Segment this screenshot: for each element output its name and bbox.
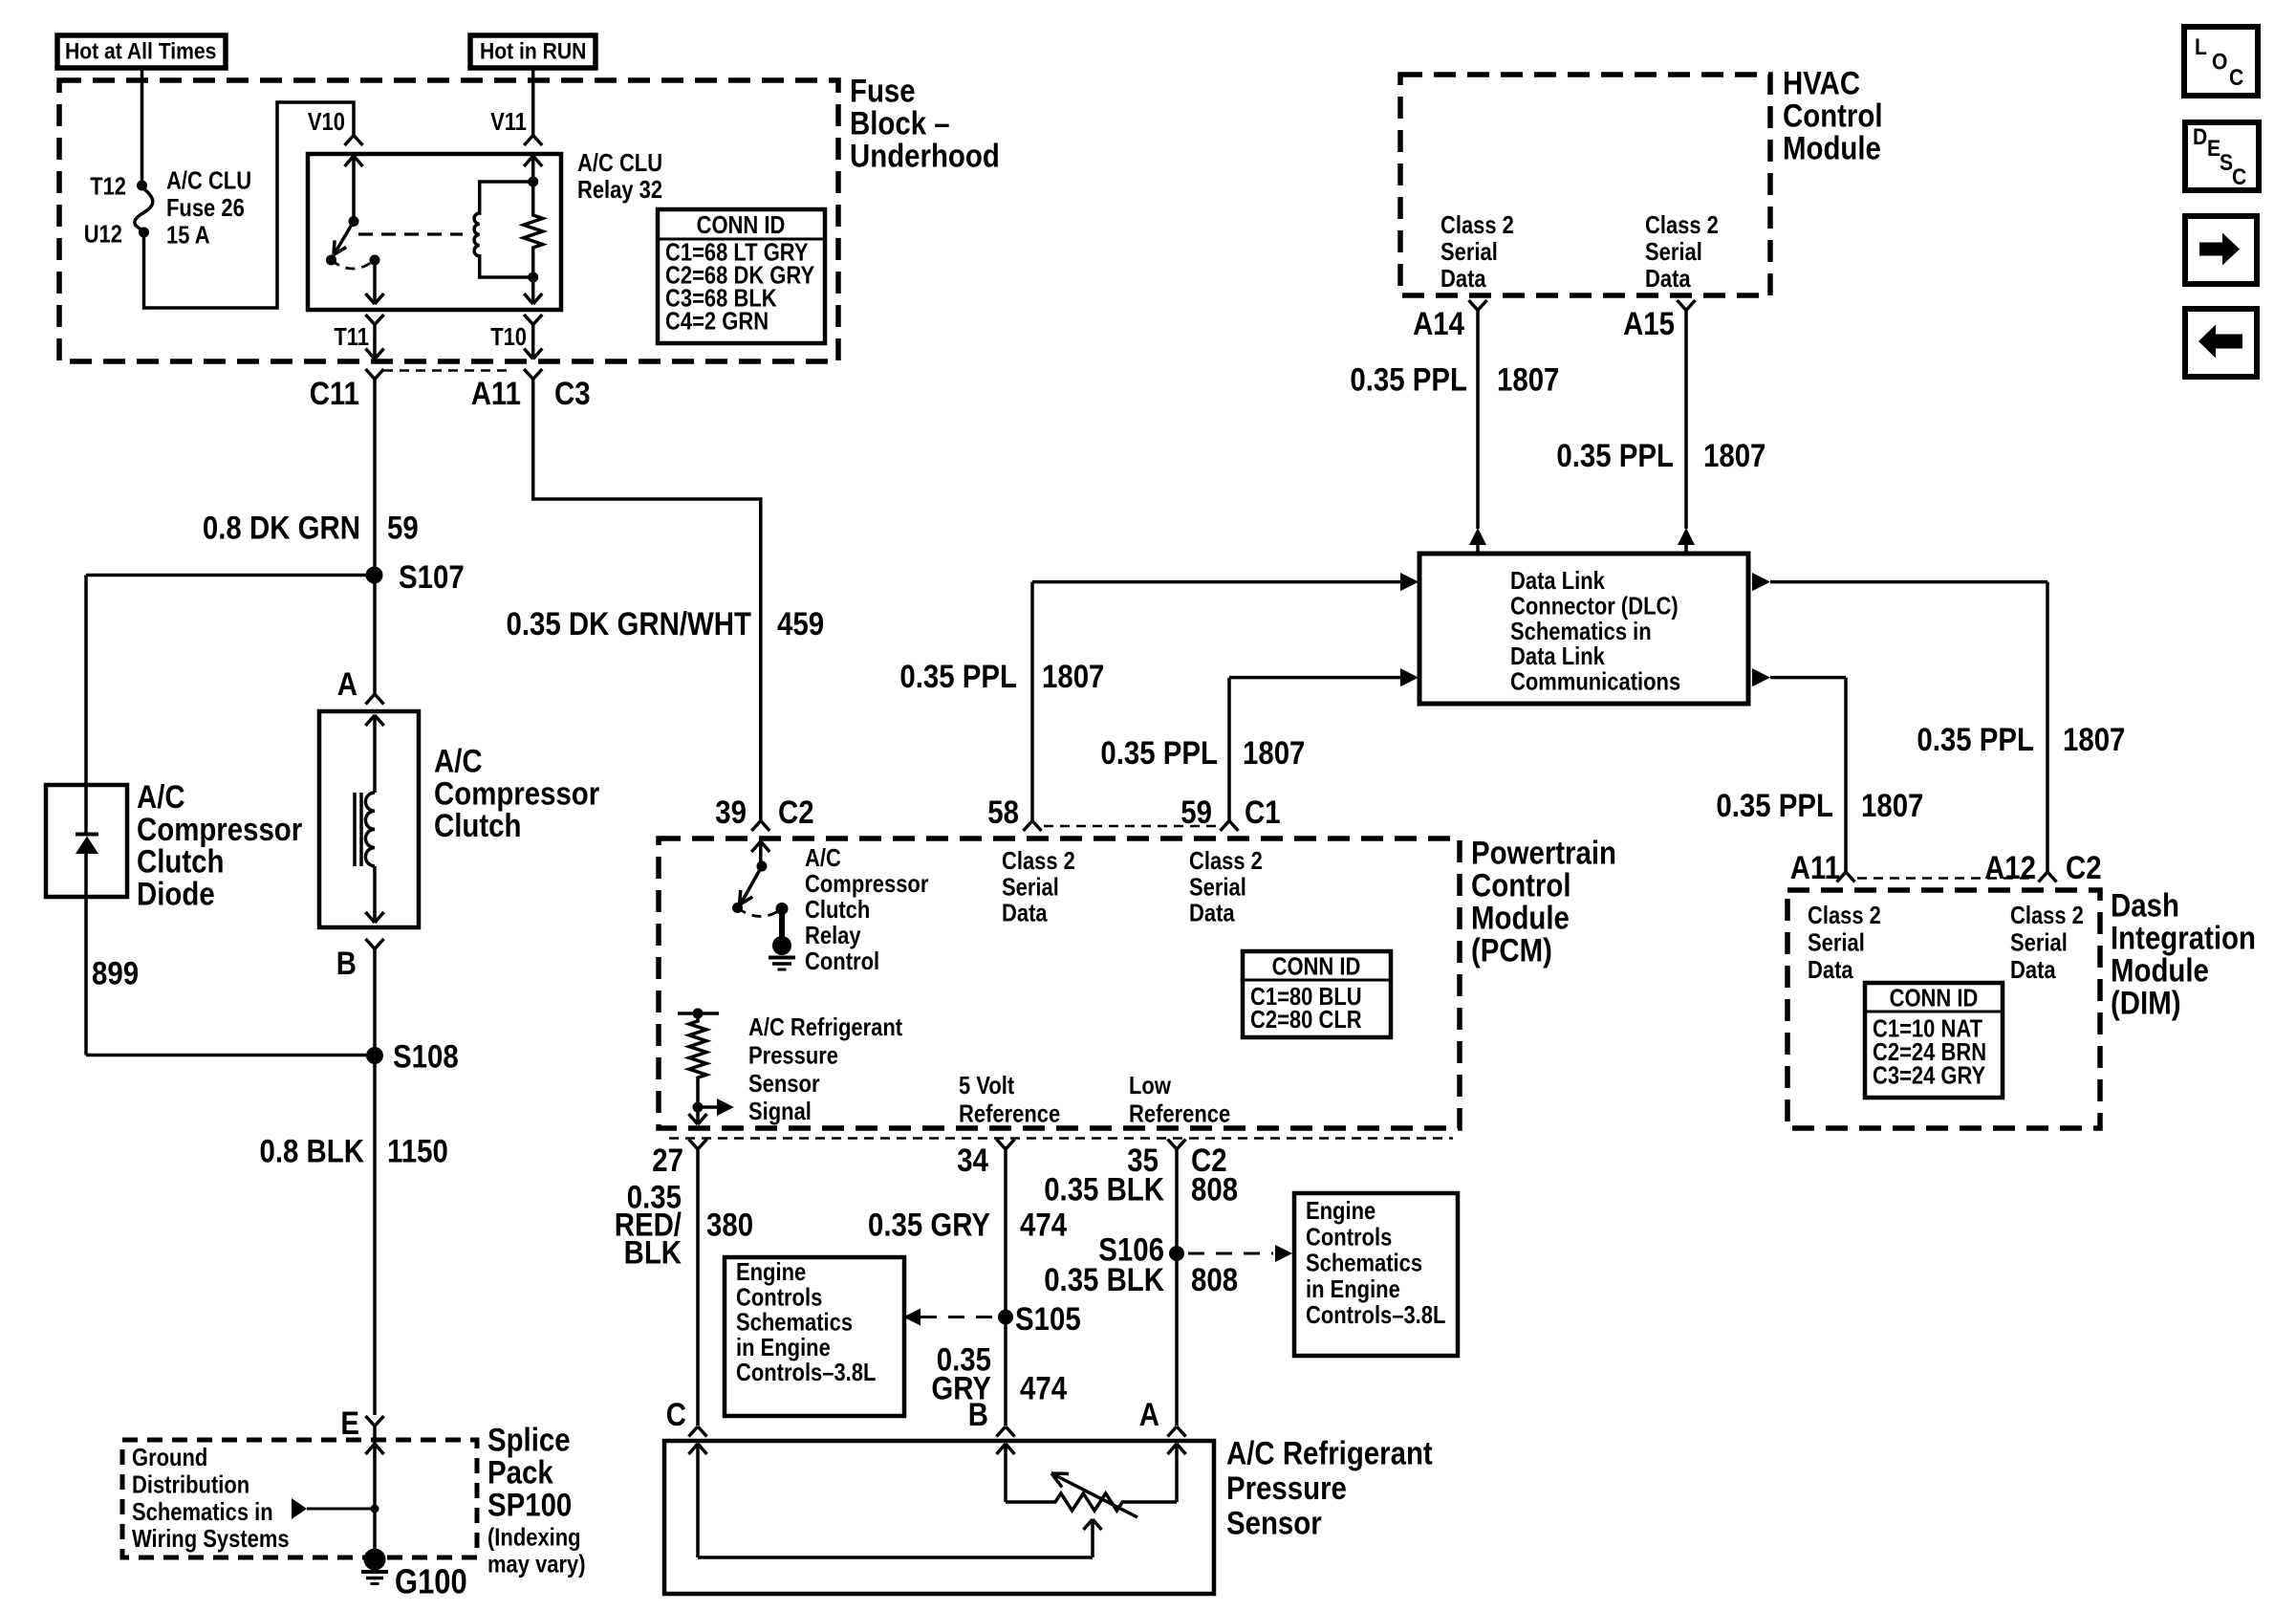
- svg-text:0.35 GRY: 0.35 GRY: [868, 1208, 990, 1244]
- wire Hot at All Times to fuse T12: [141, 68, 144, 185]
- relay switch arm: [335, 222, 355, 255]
- splice S108: [366, 1047, 383, 1064]
- svg-text:A: A: [337, 666, 357, 703]
- sensor B feed: [1004, 1444, 1007, 1502]
- svg-text:Data: Data: [2010, 955, 2056, 984]
- PCM pressure sensor signal pull-up resistor: [678, 1012, 719, 1015]
- svg-text:C3: C3: [554, 376, 591, 412]
- svg-text:Module: Module: [1783, 131, 1881, 167]
- svg-text:S108: S108: [393, 1039, 459, 1076]
- data link connector DLC box: [1419, 554, 1748, 704]
- svg-text:Reference: Reference: [959, 1099, 1060, 1127]
- in-line connector A11 C3: [524, 369, 533, 380]
- svg-text:1807: 1807: [1497, 362, 1559, 399]
- terminal A15: [1678, 300, 1687, 311]
- svg-text:Pressure: Pressure: [1226, 1470, 1347, 1507]
- svg-text:Ground: Ground: [132, 1443, 207, 1471]
- clutch coil out arrow: [373, 866, 377, 922]
- wire DLC to A12: [1770, 580, 2047, 584]
- terminal 34: [997, 1140, 1007, 1150]
- wire S108 to E 0.8 BLK 1150: [373, 1056, 377, 1415]
- svg-text:1807: 1807: [2063, 722, 2125, 758]
- svg-text:(PCM): (PCM): [1471, 933, 1552, 969]
- sensor potentiometer wiper arrow: [1051, 1473, 1137, 1517]
- svg-text:Class 2: Class 2: [1645, 210, 1719, 239]
- svg-text:CONN ID: CONN ID: [1272, 952, 1361, 981]
- svg-text:C11: C11: [310, 376, 359, 412]
- svg-text:C: C: [2229, 65, 2243, 91]
- svg-text:Relay: Relay: [805, 921, 861, 949]
- svg-text:Integration: Integration: [2111, 921, 2256, 957]
- terminal A clutch: [366, 694, 376, 705]
- wire C3 to PCM 39 0.35 DK GRN/WHT 459: [533, 380, 761, 821]
- svg-text:Control: Control: [1783, 98, 1883, 135]
- relay switch pivot node: [349, 216, 359, 227]
- terminal C sensor: [689, 1426, 699, 1437]
- svg-text:Sensor: Sensor: [748, 1069, 820, 1098]
- relay coil L1: [474, 182, 533, 277]
- svg-text:0.35 PPL: 0.35 PPL: [899, 659, 1017, 695]
- svg-text:Data: Data: [1808, 955, 1853, 984]
- svg-text:Compressor: Compressor: [805, 869, 928, 898]
- svg-text:Pressure: Pressure: [748, 1040, 838, 1069]
- sensor potentiometer R: [1006, 1493, 1177, 1511]
- svg-text:C: C: [2232, 164, 2246, 190]
- svg-text:0.35 PPL: 0.35 PPL: [1716, 788, 1833, 824]
- icon arrow left: [2185, 309, 2257, 377]
- svg-text:Wiring Systems: Wiring Systems: [132, 1524, 290, 1553]
- S105 dashed reference arrow: [921, 1316, 994, 1318]
- svg-text:1807: 1807: [1042, 659, 1104, 695]
- svg-text:Data: Data: [1002, 899, 1048, 927]
- wire 27 to C 0.35 RED/BLK 380: [696, 1149, 700, 1426]
- svg-text:459: 459: [777, 606, 824, 642]
- terminal A11 DIM: [1837, 872, 1847, 882]
- DLC top arrow A15: [1678, 528, 1695, 545]
- node U12: [139, 228, 149, 238]
- svg-text:Splice: Splice: [487, 1423, 571, 1459]
- svg-text:380: 380: [706, 1208, 753, 1244]
- sensor bottom path to wiper: [698, 1556, 1093, 1559]
- svg-text:39: 39: [715, 795, 747, 831]
- diode box A/C compressor clutch diode: [46, 785, 127, 897]
- svg-text:Relay 32: Relay 32: [577, 175, 662, 204]
- svg-text:899: 899: [92, 956, 139, 992]
- svg-text:808: 808: [1191, 1262, 1238, 1298]
- terminal A12 C2 DIM: [2039, 872, 2048, 882]
- terminal T11: [366, 315, 376, 325]
- svg-text:HVAC: HVAC: [1783, 66, 1860, 102]
- clutch box A/C compressor clutch: [319, 711, 419, 927]
- power label Hot in RUN: [470, 35, 596, 68]
- conn id table fuse block: [658, 209, 825, 343]
- svg-text:U12: U12: [84, 220, 122, 249]
- svg-text:Module: Module: [2111, 953, 2209, 990]
- PCM relay control ground node: [772, 936, 791, 955]
- svg-text:Schematics: Schematics: [1306, 1249, 1422, 1277]
- svg-text:Control: Control: [805, 947, 879, 975]
- svg-text:A/C: A/C: [434, 744, 483, 780]
- pressure sensor box: [664, 1441, 1214, 1594]
- svg-text:Engine: Engine: [1306, 1196, 1375, 1225]
- clutch coil L: [365, 793, 375, 866]
- svg-text:1150: 1150: [387, 1134, 448, 1170]
- wire DLC to 58: [1032, 580, 1400, 584]
- wire A15 to DLC 0.35 PPL 1807: [1684, 311, 1688, 530]
- wire A14 to DLC 0.35 PPL 1807: [1476, 311, 1480, 530]
- wire 35 to A 0.35 BLK 808: [1175, 1149, 1179, 1426]
- relay coil dashed actuation link: [358, 232, 463, 235]
- terminal V11: [524, 136, 533, 146]
- svg-text:A11: A11: [471, 376, 521, 412]
- DLC left arrow upper: [1400, 573, 1419, 591]
- svg-text:T11: T11: [334, 322, 369, 351]
- svg-text:T12: T12: [90, 172, 126, 201]
- svg-text:Serial: Serial: [1808, 927, 1865, 956]
- icon LOC: [2184, 27, 2258, 96]
- svg-text:E: E: [2207, 136, 2220, 162]
- svg-text:Clutch: Clutch: [434, 808, 522, 844]
- relay output wire to T11: [373, 260, 377, 303]
- sensor C feed: [696, 1444, 700, 1557]
- fuse block - underhood dashed box: [59, 80, 838, 361]
- svg-text:27: 27: [652, 1143, 683, 1179]
- svg-text:V10: V10: [308, 107, 345, 136]
- engine controls box right: [1294, 1193, 1458, 1356]
- svg-text:Underhood: Underhood: [850, 139, 1000, 175]
- svg-text:Class 2: Class 2: [1002, 846, 1075, 875]
- svg-text:Communications: Communications: [1510, 667, 1680, 696]
- svg-text:Serial: Serial: [2010, 927, 2068, 956]
- svg-text:(DIM): (DIM): [2111, 986, 2181, 1022]
- svg-text:in Engine: in Engine: [1306, 1274, 1400, 1303]
- svg-text:0.35 DK GRN/WHT: 0.35 DK GRN/WHT: [507, 606, 752, 642]
- svg-text:Signal: Signal: [748, 1097, 812, 1125]
- connector dashed line 58 59: [1044, 825, 1218, 828]
- svg-text:A/C Refrigerant: A/C Refrigerant: [1226, 1436, 1433, 1472]
- svg-text:59: 59: [387, 511, 419, 547]
- svg-text:Hot at All Times: Hot at All Times: [65, 39, 216, 65]
- svg-text:474: 474: [1020, 1371, 1067, 1407]
- S106 dashed reference arrow: [1188, 1252, 1273, 1255]
- svg-text:C: C: [666, 1397, 686, 1433]
- svg-text:474: 474: [1020, 1208, 1067, 1244]
- svg-text:Hot in RUN: Hot in RUN: [480, 39, 586, 65]
- svg-text:Reference: Reference: [1129, 1099, 1230, 1127]
- svg-text:SP100: SP100: [487, 1488, 572, 1524]
- svg-text:0.8 BLK: 0.8 BLK: [260, 1134, 365, 1170]
- svg-text:0.35 PPL: 0.35 PPL: [1556, 438, 1674, 474]
- DLC right arrow upper: [1752, 573, 1770, 591]
- svg-text:808: 808: [1191, 1172, 1238, 1208]
- node T12: [137, 181, 147, 191]
- PCM signal junction with arrow: [696, 1089, 700, 1107]
- terminal 27: [689, 1140, 699, 1150]
- sensor A feed: [1175, 1444, 1179, 1502]
- svg-text:A: A: [1139, 1397, 1159, 1433]
- terminal A sensor: [1168, 1426, 1178, 1437]
- svg-text:Controls: Controls: [1306, 1222, 1392, 1251]
- svg-text:Serial: Serial: [1002, 872, 1059, 901]
- terminal T10: [524, 315, 533, 325]
- svg-text:Serial: Serial: [1645, 237, 1702, 266]
- svg-text:Control: Control: [1471, 868, 1571, 904]
- ground distribution reference arrow: [292, 1498, 307, 1519]
- splice junction node: [371, 1505, 379, 1513]
- svg-text:0.35 PPL: 0.35 PPL: [1917, 722, 2034, 758]
- svg-text:Class 2: Class 2: [2010, 901, 2084, 929]
- wire T10 to fuse block edge: [531, 325, 535, 359]
- DLC left arrow lower: [1400, 668, 1419, 686]
- svg-text:B: B: [968, 1397, 988, 1433]
- wire down to diode 899: [84, 576, 88, 786]
- wire T11 to fuse block edge: [373, 325, 377, 359]
- svg-text:Module: Module: [1471, 901, 1570, 937]
- svg-text:S105: S105: [1015, 1301, 1081, 1338]
- relay 32 A/C CLU box: [308, 154, 561, 310]
- svg-text:CONN ID: CONN ID: [697, 210, 786, 239]
- svg-text:Serial: Serial: [1189, 872, 1246, 901]
- splice S105: [998, 1310, 1013, 1325]
- wire DLC to A11: [1770, 676, 1846, 680]
- terminal 58: [1024, 821, 1033, 832]
- icon arrow right: [2185, 216, 2257, 284]
- svg-text:Block –: Block –: [850, 106, 950, 142]
- terminal A14: [1469, 300, 1479, 311]
- svg-text:Fuse 26: Fuse 26: [166, 193, 245, 222]
- svg-text:Compressor: Compressor: [137, 812, 302, 848]
- svg-text:B: B: [336, 946, 357, 982]
- svg-text:Distribution: Distribution: [132, 1469, 249, 1498]
- svg-text:1807: 1807: [1703, 438, 1765, 474]
- svg-text:Clutch: Clutch: [805, 895, 870, 924]
- svg-text:0.35 PPL: 0.35 PPL: [1350, 362, 1467, 399]
- svg-text:V11: V11: [490, 107, 527, 136]
- fuse F26 A/C CLU 15A: [135, 187, 153, 230]
- svg-text:Controls–3.8L: Controls–3.8L: [736, 1358, 876, 1386]
- wire B to S108: [373, 949, 377, 1056]
- svg-text:Fuse: Fuse: [850, 74, 916, 110]
- svg-text:0.35 BLK: 0.35 BLK: [1044, 1172, 1164, 1208]
- relay switch dashed throw arc: [332, 260, 376, 269]
- svg-text:A14: A14: [1413, 306, 1464, 342]
- svg-text:O: O: [2212, 50, 2227, 76]
- svg-text:C4=2 GRN: C4=2 GRN: [665, 307, 769, 336]
- svg-text:Data: Data: [1645, 264, 1691, 293]
- svg-text:Low: Low: [1129, 1071, 1172, 1099]
- svg-text:1807: 1807: [1861, 788, 1923, 824]
- svg-text:S107: S107: [399, 559, 465, 596]
- svg-text:Compressor: Compressor: [434, 775, 599, 812]
- svg-text:BLK: BLK: [624, 1235, 682, 1272]
- dash integration module dashed box: [1787, 890, 2100, 1128]
- svg-text:Class 2: Class 2: [1440, 210, 1514, 239]
- svg-text:S: S: [2220, 150, 2233, 176]
- wire DLC to 59: [1229, 676, 1400, 680]
- svg-text:58: 58: [987, 795, 1019, 831]
- svg-text:(Indexing: (Indexing: [487, 1523, 581, 1552]
- svg-text:may vary): may vary): [487, 1550, 586, 1578]
- terminal V10: [345, 136, 355, 146]
- svg-text:A/C: A/C: [137, 779, 185, 816]
- svg-text:Data: Data: [1440, 264, 1486, 293]
- svg-text:C2: C2: [2066, 850, 2102, 886]
- connector dashed line PCM bottom C2: [669, 1137, 1453, 1140]
- svg-text:Class 2: Class 2: [1808, 901, 1881, 929]
- svg-text:Serial: Serial: [1440, 237, 1498, 266]
- engine controls box left: [725, 1257, 904, 1416]
- svg-text:A/C: A/C: [805, 843, 841, 872]
- svg-text:E: E: [340, 1405, 359, 1442]
- svg-text:0.8 DK GRN: 0.8 DK GRN: [203, 511, 360, 547]
- svg-text:Schematics in: Schematics in: [132, 1497, 273, 1526]
- svg-text:34: 34: [957, 1143, 988, 1179]
- svg-text:Sensor: Sensor: [1226, 1506, 1322, 1542]
- terminal 39 C2: [751, 821, 761, 832]
- PCM clutch relay control driver: [759, 841, 763, 862]
- svg-text:1807: 1807: [1243, 735, 1305, 772]
- relay resistor R parallel: [524, 155, 543, 304]
- svg-text:A12: A12: [1984, 850, 2036, 886]
- terminal 59 C1: [1221, 821, 1230, 832]
- powertrain control module dashed box: [659, 838, 1460, 1128]
- clutch coil feed arrow: [373, 715, 377, 793]
- splice S107: [366, 567, 383, 584]
- clutch coil core bars: [353, 793, 357, 866]
- svg-text:A/C Refrigerant: A/C Refrigerant: [748, 1012, 902, 1041]
- relay coil bottom node: [528, 272, 538, 283]
- icon DESC: [2185, 122, 2259, 190]
- wire 899 diode to S108: [84, 897, 88, 1056]
- wire S107 to diode branch: [86, 574, 375, 577]
- HVAC control module dashed box: [1400, 75, 1770, 295]
- svg-text:L: L: [2195, 34, 2207, 60]
- svg-text:T10: T10: [490, 322, 527, 351]
- wire S107 to clutch terminal A: [373, 576, 377, 695]
- conn id table DIM: [1865, 983, 2003, 1098]
- svg-text:A15: A15: [1623, 306, 1675, 342]
- svg-text:15 A: 15 A: [166, 221, 210, 250]
- wire Hot in RUN to V11: [531, 68, 535, 136]
- in-line connector C11: [366, 369, 376, 380]
- ground distribution dashed box: [122, 1440, 477, 1557]
- svg-text:Data: Data: [1189, 899, 1235, 927]
- svg-text:Dash: Dash: [2111, 888, 2179, 925]
- svg-text:Powertrain: Powertrain: [1471, 836, 1616, 872]
- DLC right arrow lower: [1752, 668, 1770, 686]
- splice S106: [1169, 1246, 1184, 1261]
- svg-text:G100: G100: [395, 1562, 467, 1601]
- wire C11 to S107 0.8 DK GRN 59: [373, 380, 377, 576]
- svg-text:Pack: Pack: [487, 1455, 553, 1491]
- wire E to G100: [373, 1444, 377, 1559]
- svg-text:Diode: Diode: [137, 876, 215, 912]
- svg-text:C3=24 GRY: C3=24 GRY: [1873, 1060, 1985, 1089]
- DLC top arrow A14: [1469, 528, 1486, 545]
- conn id table PCM: [1243, 951, 1391, 1037]
- svg-text:A/C CLU: A/C CLU: [577, 148, 662, 177]
- svg-text:Controls–3.8L: Controls–3.8L: [1306, 1300, 1445, 1329]
- wire 34 to B 0.35 GRY 474: [1004, 1149, 1007, 1426]
- terminal B clutch: [366, 939, 376, 949]
- power label Hot at All Times: [57, 35, 226, 68]
- terminal B sensor: [997, 1426, 1007, 1437]
- relay output node to T11: [370, 255, 380, 266]
- svg-text:Class 2: Class 2: [1189, 846, 1263, 875]
- ground G100: [364, 1549, 386, 1571]
- svg-text:C2=80 CLR: C2=80 CLR: [1250, 1005, 1362, 1034]
- svg-text:0.35 PPL: 0.35 PPL: [1100, 735, 1218, 772]
- wire U12 to V10 riser: [144, 102, 355, 308]
- svg-text:D: D: [2193, 124, 2207, 150]
- svg-text:C1: C1: [1245, 795, 1281, 831]
- svg-text:A/C CLU: A/C CLU: [166, 166, 251, 195]
- svg-text:C2: C2: [778, 795, 814, 831]
- svg-text:0.35 BLK: 0.35 BLK: [1044, 1262, 1164, 1298]
- svg-text:A11: A11: [1790, 850, 1840, 886]
- relay switch common wire from V10: [352, 156, 356, 218]
- terminal 35 C2: [1168, 1140, 1178, 1150]
- svg-text:5 Volt: 5 Volt: [959, 1071, 1014, 1099]
- relay switch contact node: [326, 255, 336, 266]
- svg-text:Clutch: Clutch: [137, 844, 225, 881]
- diode D1 symbol: [84, 785, 88, 833]
- connector dashed line A11 A12: [1857, 877, 2034, 880]
- relay coil top node: [528, 177, 538, 187]
- svg-text:CONN ID: CONN ID: [1890, 984, 1979, 1012]
